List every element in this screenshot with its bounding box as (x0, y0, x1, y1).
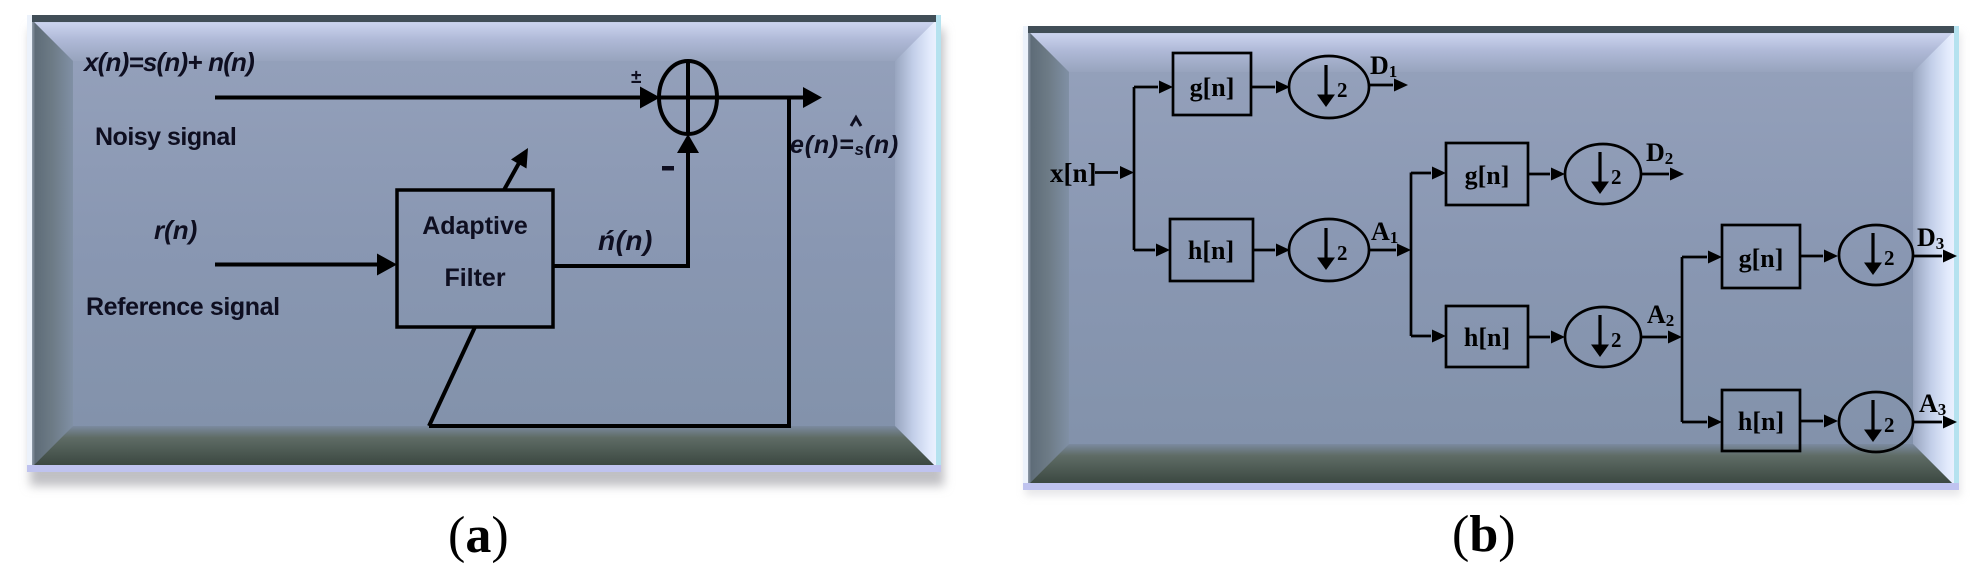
downsampler A2 (1565, 307, 1641, 367)
block: Adaptive Filter box (397, 190, 553, 327)
wire: out D2 (1641, 168, 1684, 181)
wire: summer output e(n) (717, 87, 822, 108)
panel (a): adaptive filter diagram (27, 15, 941, 472)
caption (b) (1452, 505, 1516, 564)
wire: x[n] into tree (1095, 166, 1134, 179)
svg-text:Adaptive: Adaptive (422, 212, 528, 240)
wire: level3 split vertical (1681, 257, 1684, 422)
label e(n)=s^(n) (790, 118, 899, 160)
wire: g2 to downsampler (1528, 168, 1565, 181)
svg-text:g[n]: g[n] (1739, 244, 1784, 273)
panel b: right bevel (1913, 26, 1959, 490)
panel a: right edge light line (936, 15, 941, 472)
svg-text:ń(n): ń(n) (598, 225, 653, 256)
panel b: bottom bevel (1023, 444, 1959, 490)
panel a: bottom bevel (27, 426, 941, 472)
panel a: top edge dark line (29, 15, 939, 22)
svg-text:2: 2 (1884, 246, 1895, 270)
panel a: left bevel (27, 15, 73, 472)
wire: feedback from output down (787, 98, 791, 427)
downsampler A1 (1289, 219, 1369, 281)
panel b: top bevel (1023, 26, 1959, 72)
wire: into h1 (1134, 244, 1170, 257)
panel a: left edge light line (27, 15, 32, 472)
wire: filter output up into summer (677, 134, 699, 266)
wire: into g3 (1682, 251, 1722, 264)
wire: A2 to level3 (1641, 331, 1682, 344)
panel b: bottom edge lavender line (1023, 483, 1959, 490)
svg-text:h[n]: h[n] (1188, 236, 1234, 265)
svg-text:2: 2 (1337, 78, 1348, 102)
panel (b): wavelet filter bank diagram (1023, 26, 1959, 490)
wire: into h3 (1682, 416, 1722, 429)
block g[n] level1 (1173, 53, 1251, 115)
svg-text:r(n): r(n) (154, 215, 197, 245)
wire: into g1 (1134, 81, 1173, 94)
wire: out D3 (1913, 250, 1957, 263)
svg-text:2: 2 (1337, 241, 1348, 265)
svg-text:x[n]: x[n] (1050, 158, 1097, 188)
svg-text:2: 2 (1611, 165, 1622, 189)
wire: reference signal into filter (215, 254, 397, 276)
svg-text:e(n)=s(n): e(n)=s(n) (790, 131, 899, 159)
panel a: right bevel (895, 15, 941, 472)
wire: feedback diagonal into filter (429, 327, 475, 426)
block g[n] level3 (1722, 225, 1800, 288)
panel b: left edge light line (1023, 26, 1028, 490)
panel b: right edge light line (1954, 26, 1959, 490)
wire: A1 to level2 (1369, 244, 1411, 257)
panel b: base fill (1023, 26, 1959, 490)
wire: g1 to downsampler (1251, 81, 1290, 94)
svg-text:Noisy signal: Noisy signal (95, 123, 236, 151)
svg-text:x(n)=s(n)+ n(n): x(n)=s(n)+ n(n) (82, 47, 254, 77)
minus sign at summer lower input (662, 166, 674, 171)
wire: out A3 (1913, 416, 1957, 429)
block h[n] level1 (1170, 219, 1253, 281)
svg-text:Reference signal: Reference signal (86, 293, 280, 321)
wire: h3 to downsampler (1800, 415, 1838, 428)
downsampler D2 (1565, 144, 1641, 204)
arrow: adaptation arrow on top of filter box (504, 148, 528, 190)
svg-text:2: 2 (1884, 413, 1895, 437)
svg-text:h[n]: h[n] (1464, 323, 1510, 352)
wire: out D1 (1369, 79, 1408, 92)
panel a: base fill (27, 15, 941, 472)
panel b: left bevel (1023, 26, 1069, 490)
caption (a) (448, 506, 509, 565)
svg-text:h[n]: h[n] (1738, 407, 1784, 436)
svg-text:2: 2 (1611, 328, 1622, 352)
block h[n] level3 (1722, 390, 1800, 451)
panel a: top bevel (27, 15, 941, 61)
wire: into g2 (1411, 167, 1446, 180)
block h[n] level2 (1446, 306, 1528, 367)
wire: h2 to downsampler (1528, 331, 1565, 344)
panel a: bottom edge lavender line (27, 465, 941, 472)
downsampler D1 (1289, 56, 1369, 118)
wire: level2 split vertical (1410, 173, 1413, 337)
wire: feedback bottom horizontal (429, 424, 791, 428)
svg-text:g[n]: g[n] (1465, 161, 1510, 190)
downsampler A3 (1839, 392, 1913, 452)
wire: h1 to downsampler (1253, 244, 1290, 257)
panel b: top edge dark line (1025, 26, 1957, 33)
wire: noisy signal into summer (215, 87, 660, 109)
wire: g3 to downsampler (1800, 250, 1838, 263)
block g[n] level2 (1446, 143, 1528, 205)
downsampler D3 (1839, 225, 1913, 285)
svg-text:g[n]: g[n] (1190, 73, 1235, 102)
svg-text:Filter: Filter (444, 264, 505, 292)
wire: level1 split vertical (1133, 87, 1136, 250)
svg-text:±: ± (631, 67, 641, 88)
wire: into h2 (1411, 330, 1446, 343)
wire: filter output n'(n) (553, 264, 690, 268)
summing junction circle (659, 61, 717, 134)
